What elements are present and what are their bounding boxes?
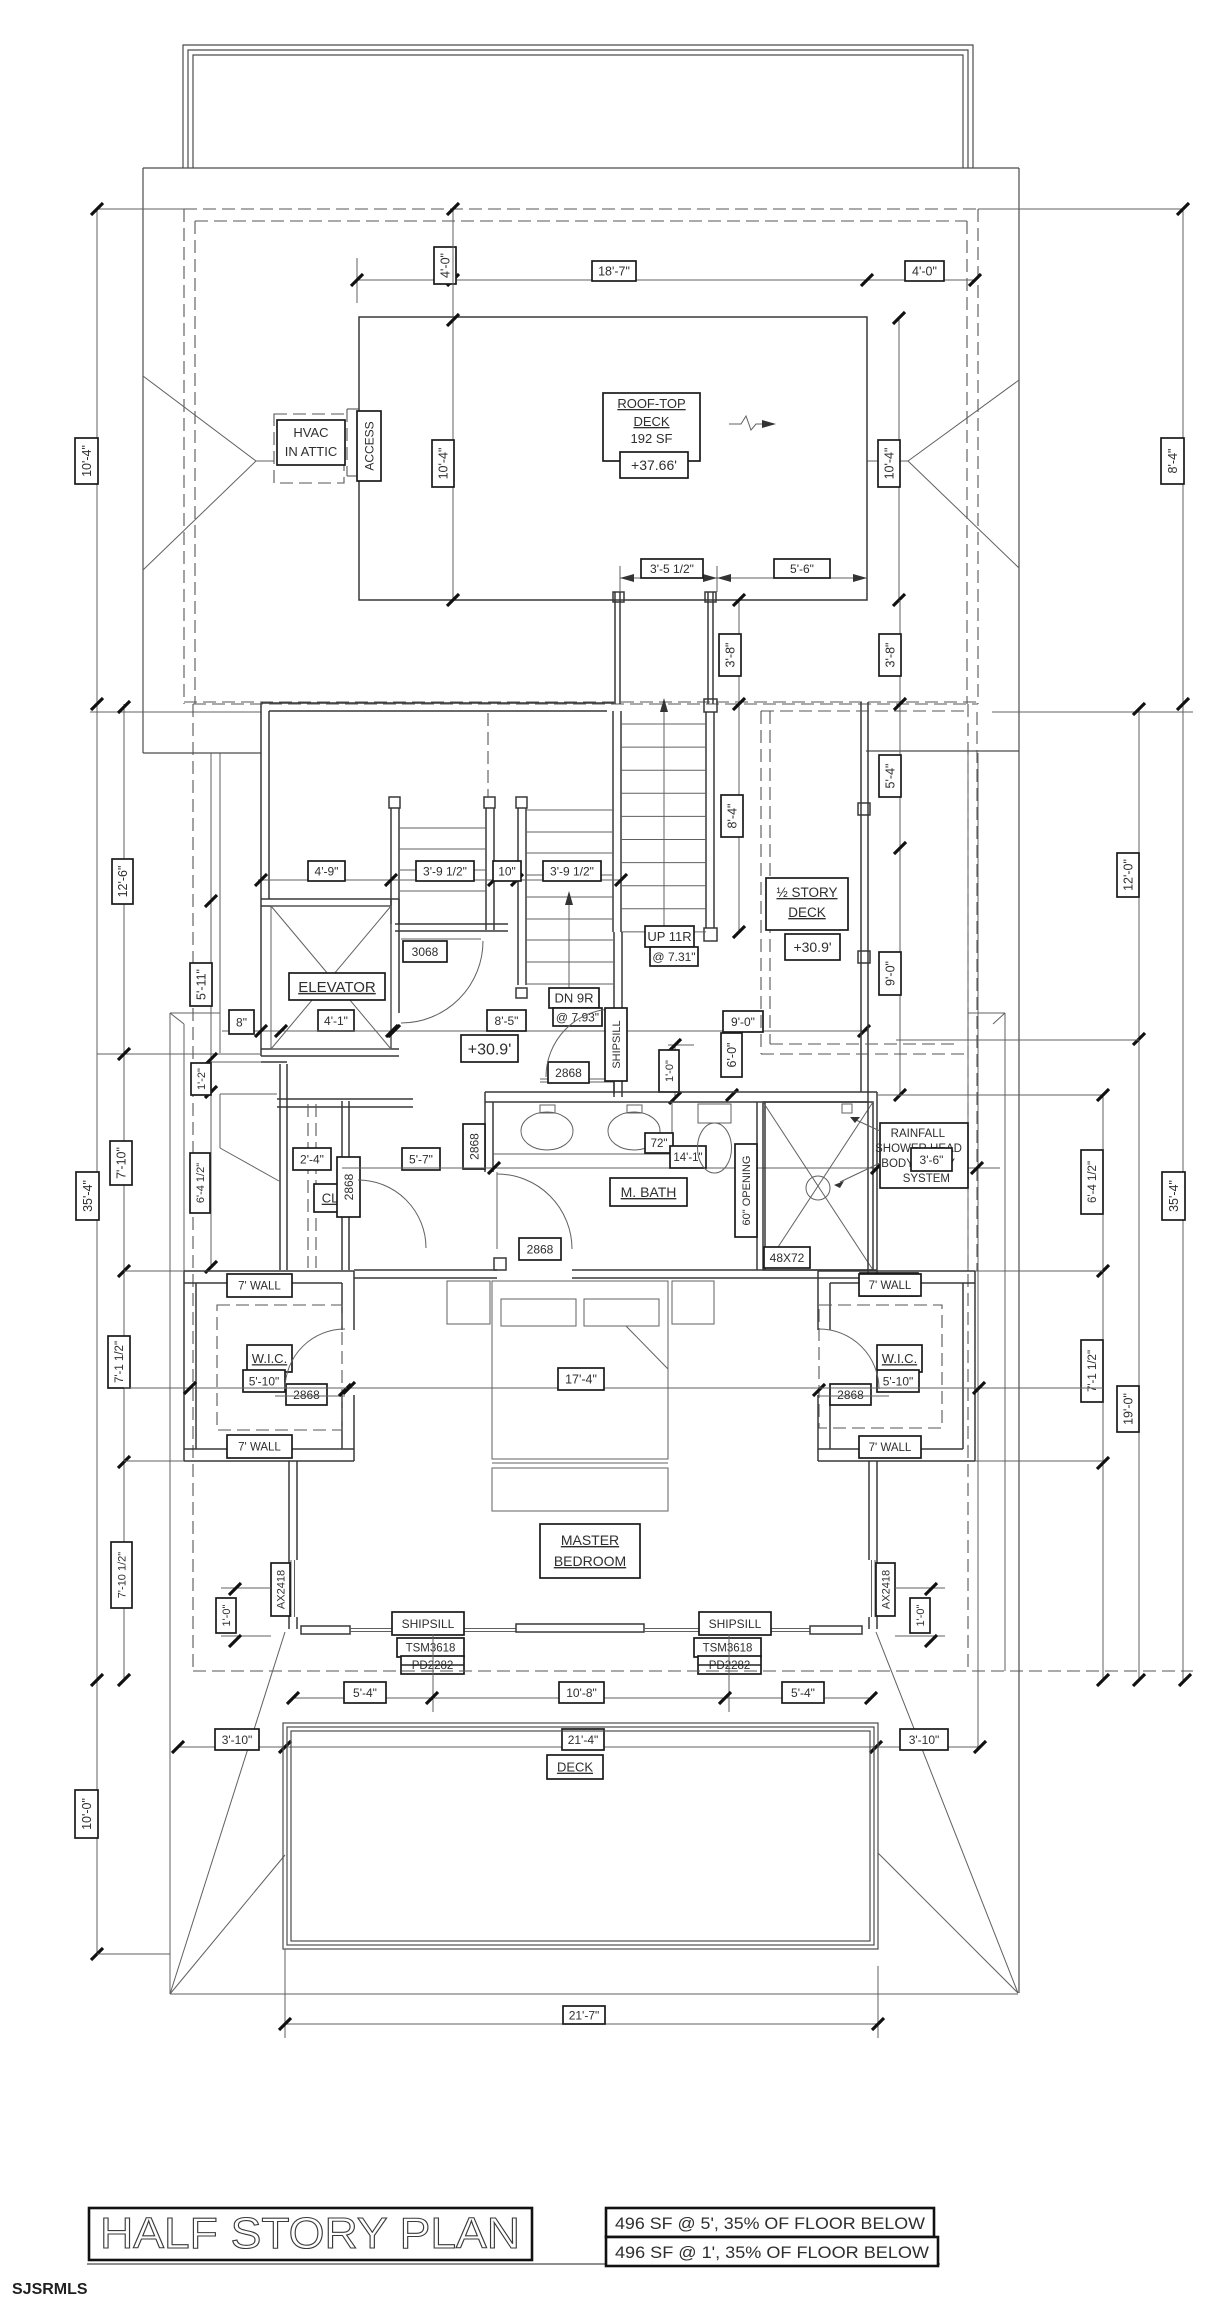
note box 496 SF @ 5 ft' xyxy=(606,2208,934,2237)
svg-text:10'-4": 10'-4" xyxy=(80,445,94,477)
SHIPSILL label right window xyxy=(699,1612,771,1635)
HVAC in attic dashed box xyxy=(274,414,344,483)
building side wall below roof right xyxy=(967,753,969,1271)
DECK label xyxy=(547,1755,603,1779)
wall stub below elevator xyxy=(211,1061,261,1063)
TSM3618 / PD2282 left xyxy=(397,1638,464,1657)
bath south wall xyxy=(354,1269,497,1271)
svg-text:MASTER: MASTER xyxy=(561,1532,619,1548)
elevator dim 4'-1 xyxy=(318,1010,354,1031)
small dim 1'-0 right window xyxy=(895,1587,945,1589)
svg-text:10'-0": 10'-0" xyxy=(80,1798,94,1830)
lower roof dashed overhang bottom xyxy=(193,1670,1193,1672)
ACCESS rotated label xyxy=(357,411,381,481)
shower head square xyxy=(842,1104,852,1113)
extension lines WIC walls to dim chains xyxy=(975,1460,1103,1462)
svg-text:1'-0": 1'-0" xyxy=(664,1060,676,1082)
svg-text:4'-9": 4'-9" xyxy=(315,864,339,878)
svg-text:½ STORY: ½ STORY xyxy=(776,885,837,900)
extension line y=1168 ticks xyxy=(871,1162,883,1174)
main stair up arrow line xyxy=(663,705,665,950)
upper roof outer rectangle xyxy=(143,167,1019,169)
stair room center dashed line xyxy=(487,713,489,798)
vanity dim 72 xyxy=(645,1133,673,1153)
deck dim line y=1747 3'-10 / 21'-4 / 3'-10 xyxy=(178,1746,980,1748)
svg-text:2868: 2868 xyxy=(527,1242,554,1256)
svg-text:5'-6": 5'-6" xyxy=(790,562,814,576)
lower roof left edge xyxy=(170,1012,220,1014)
svg-text:+30.9': +30.9' xyxy=(468,1041,512,1058)
svg-text:7' WALL: 7' WALL xyxy=(238,1442,281,1454)
shower enclosure xyxy=(763,1102,873,1270)
main stair left rail xyxy=(612,711,614,932)
svg-text:35'-4": 35'-4" xyxy=(81,1180,95,1212)
rotated dim 5'-11 xyxy=(190,963,212,1006)
svg-text:SYSTEM: SYSTEM xyxy=(903,1173,950,1185)
left chain bottom 10'-0 xyxy=(91,1948,103,1960)
svg-text:17'-4": 17'-4" xyxy=(565,1373,597,1387)
svg-text:12'-0": 12'-0" xyxy=(1122,859,1136,891)
svg-text:@ 7.31": @ 7.31" xyxy=(652,950,695,964)
svg-text:W.I.C.: W.I.C. xyxy=(882,1351,917,1366)
svg-text:SJSRMLS: SJSRMLS xyxy=(12,2281,88,2298)
right WIC shelving dashed xyxy=(819,1305,942,1428)
MASTER BEDROOM label xyxy=(540,1524,640,1578)
closet dim 2'-4 xyxy=(293,1148,331,1170)
left outer dim chain x=97 xyxy=(96,209,98,1954)
right dim chain x=1139 12'-0 / 19'-0 xyxy=(1138,709,1140,1680)
svg-text:10'-4": 10'-4" xyxy=(437,448,451,480)
right WIC door 2868 xyxy=(830,1384,871,1405)
lower roof hip diagonals right xyxy=(876,1632,1018,1993)
svg-text:+30.9': +30.9' xyxy=(793,939,831,955)
shower size 48X72 label xyxy=(764,1247,810,1268)
TSM3618 / PD2282 right xyxy=(694,1638,761,1657)
extension line y=1040 to x=1139 xyxy=(896,1039,1139,1041)
bedroom cross dim line y=1388 xyxy=(124,1387,1103,1389)
toilet xyxy=(698,1104,731,1123)
svg-text:5'-10": 5'-10" xyxy=(883,1374,914,1388)
svg-text:5'-4": 5'-4" xyxy=(353,1686,377,1700)
half story deck dashed outline xyxy=(761,710,968,712)
right window AX2418 xyxy=(871,1560,873,1617)
deck bottom dim 21'-7 xyxy=(284,1949,286,2038)
closet rod dashed lines xyxy=(307,1104,309,1268)
closet right wall xyxy=(341,1101,343,1270)
svg-text:19'-0": 19'-0" xyxy=(1122,1393,1136,1425)
extension line y=1271 to x=1103 xyxy=(877,1270,1103,1272)
svg-text:AX2418: AX2418 xyxy=(881,1570,893,1609)
note box 496 SF @ 1' xyxy=(606,2237,938,2266)
window center extension lines xyxy=(432,1634,434,1712)
bed nightstand right xyxy=(672,1281,714,1324)
vertical dim x=900 3'-8 / 5'-4 / 9'-0 xyxy=(899,600,901,1095)
svg-text:TSM3618: TSM3618 xyxy=(406,1643,456,1655)
svg-text:SHIPSILL: SHIPSILL xyxy=(402,1617,455,1631)
svg-text:21'-4": 21'-4" xyxy=(568,1733,599,1747)
bath dim 14'-1 xyxy=(670,1146,706,1168)
window dim line y=1698 5'-4 / 10'-8 / 5'-4 xyxy=(293,1697,871,1699)
small dim 1'-0 at x=675 xyxy=(668,1044,694,1046)
RAINFALL SHOWER HEAD BODY SPRAY SYSTEM note xyxy=(880,1123,968,1188)
svg-text:7'-1 1/2": 7'-1 1/2" xyxy=(1087,1350,1099,1392)
lower roof bottom edge xyxy=(170,1993,1018,1995)
svg-text:5'-7": 5'-7" xyxy=(409,1152,433,1166)
svg-text:5'-4": 5'-4" xyxy=(791,1686,815,1700)
svg-text:ROOF-TOP: ROOF-TOP xyxy=(617,396,685,411)
svg-text:8'-5": 8'-5" xyxy=(495,1014,519,1028)
svg-text:48X72: 48X72 xyxy=(770,1251,805,1265)
title underline xyxy=(87,2263,940,2265)
deck elevation +37.66 label xyxy=(620,452,688,478)
east wall of stair room lower xyxy=(613,932,615,1097)
bath east wall xyxy=(867,1092,869,1278)
HVAC in attic label xyxy=(277,420,345,465)
svg-text:7'-10 1/2": 7'-10 1/2" xyxy=(117,1552,129,1598)
svg-text:7'-1 1/2": 7'-1 1/2" xyxy=(114,1341,126,1383)
stair room door 3068 xyxy=(401,938,481,940)
roof overhang dashed rect outer xyxy=(184,208,978,210)
left window AX2418 xyxy=(290,1560,292,1617)
svg-text:10'-8": 10'-8" xyxy=(566,1686,597,1700)
deck triple border xyxy=(283,1723,878,1949)
svg-text:4'-0": 4'-0" xyxy=(912,265,937,279)
break-line squiggle with arrow xyxy=(729,416,762,430)
main stair right rail xyxy=(705,712,707,928)
left WIC label xyxy=(247,1345,292,1372)
svg-text:AX2418: AX2418 xyxy=(276,1570,288,1609)
svg-text:ACCESS: ACCESS xyxy=(362,421,376,470)
bedroom east wall xyxy=(876,1461,878,1629)
right WIC label xyxy=(877,1345,922,1372)
svg-text:3'-8": 3'-8" xyxy=(884,643,898,668)
svg-text:496 SF @ 5', 35% OF FLOOR BELO: 496 SF @ 5', 35% OF FLOOR BELOW xyxy=(615,2215,925,2233)
svg-text:5'-4": 5'-4" xyxy=(884,764,898,789)
title box HALF STORY PLAN xyxy=(89,2208,532,2260)
SHIPSILL label left window xyxy=(392,1612,464,1635)
rotated dim 6'-0 xyxy=(721,1033,742,1077)
svg-text:DECK: DECK xyxy=(788,905,826,920)
bed nightstand left xyxy=(447,1281,490,1324)
bedroom south window wall xyxy=(301,1626,350,1634)
svg-text:TSM3618: TSM3618 xyxy=(703,1643,753,1655)
svg-text:7' WALL: 7' WALL xyxy=(869,1442,912,1454)
svg-text:8": 8" xyxy=(236,1015,247,1029)
bath north wall xyxy=(485,1091,877,1093)
svg-text:10": 10" xyxy=(498,864,516,878)
building side wall below roof left xyxy=(210,753,212,1267)
3'-6 label over note xyxy=(911,1148,952,1171)
vanity counter xyxy=(493,1153,672,1155)
svg-text:3'-9 1/2": 3'-9 1/2" xyxy=(423,864,467,878)
1/2 STORY DECK label xyxy=(766,878,848,930)
svg-text:18'-7": 18'-7" xyxy=(598,265,630,279)
svg-text:HVAC: HVAC xyxy=(293,425,328,440)
svg-text:192 SF: 192 SF xyxy=(631,431,673,446)
dashed line y=704 across plan xyxy=(193,703,978,705)
roof-top deck rectangle xyxy=(359,317,867,600)
shower drain xyxy=(806,1176,830,1200)
svg-text:W.I.C.: W.I.C. xyxy=(252,1351,287,1366)
svg-text:4'-0": 4'-0" xyxy=(439,253,453,278)
bath west door leaf and arc 2868 xyxy=(496,1172,498,1249)
winder bottom wall xyxy=(395,923,508,925)
svg-text:8'-4": 8'-4" xyxy=(1166,449,1180,474)
extension line y=1095 to right chains xyxy=(877,1094,1103,1096)
svg-text:2868: 2868 xyxy=(342,1173,356,1200)
ROOF-TOP DECK label xyxy=(603,393,700,461)
svg-text:1'-0": 1'-0" xyxy=(915,1604,927,1626)
svg-text:2868: 2868 xyxy=(467,1133,481,1160)
svg-text:HALF STORY PLAN: HALF STORY PLAN xyxy=(100,2209,520,2258)
bedroom west wall xyxy=(288,1461,290,1629)
svg-text:SHIPSILL: SHIPSILL xyxy=(709,1617,762,1631)
svg-text:7'-10": 7'-10" xyxy=(115,1147,129,1179)
roof deck stair side walls (upper) xyxy=(614,592,616,704)
vertical dim x=739 3'-8 and 8'-4 xyxy=(738,600,740,932)
svg-text:3'-5 1/2": 3'-5 1/2" xyxy=(650,562,694,576)
svg-text:5'-10": 5'-10" xyxy=(249,1374,280,1388)
long dashed overhang verticals xyxy=(192,704,194,1670)
small dim 1'-0 left window xyxy=(221,1587,271,1589)
DN arrow xyxy=(568,898,570,988)
right WIC 7' WALL labels xyxy=(859,1274,921,1296)
right outer dim chain x=1183 xyxy=(1182,209,1184,1680)
elevator shaft X xyxy=(271,906,391,1049)
svg-text:DECK: DECK xyxy=(633,414,669,429)
closet left wall xyxy=(279,1064,281,1270)
lower roof right edge xyxy=(968,1012,1005,1014)
stair room north wall xyxy=(261,702,614,704)
right WIC walls xyxy=(818,1270,975,1272)
bed fold corner xyxy=(626,1326,668,1369)
svg-text:3'-6": 3'-6" xyxy=(920,1153,944,1167)
svg-text:12'-6": 12'-6" xyxy=(116,866,130,898)
elevator shaft walls xyxy=(261,898,399,900)
attic access dashed hatch xyxy=(346,409,348,476)
svg-text:3068: 3068 xyxy=(412,945,439,959)
svg-text:+37.66': +37.66' xyxy=(631,457,677,473)
hall elevation +30.9 label xyxy=(461,1035,518,1062)
extension line x=899 with 10'-4 label xyxy=(898,318,900,600)
svg-text:8'-4": 8'-4" xyxy=(726,804,740,829)
winder stair right rail and post xyxy=(516,797,527,808)
svg-text:60" OPENING: 60" OPENING xyxy=(741,1156,753,1226)
svg-text:4'-1": 4'-1" xyxy=(324,1014,348,1028)
svg-text:IN ATTIC: IN ATTIC xyxy=(285,444,337,459)
dim 6'-4 1/2 left xyxy=(190,1153,210,1213)
svg-text:3'-10": 3'-10" xyxy=(222,1733,253,1747)
bath south door 2868 label xyxy=(519,1238,561,1260)
svg-text:10'-4": 10'-4" xyxy=(883,448,897,480)
svg-text:3'-8": 3'-8" xyxy=(724,643,738,668)
svg-text:CL: CL xyxy=(322,1191,339,1206)
svg-text:6'-4 1/2": 6'-4 1/2" xyxy=(1087,1161,1099,1203)
small dim 1'-2 left xyxy=(205,1053,217,1065)
svg-text:UP 11R: UP 11R xyxy=(647,929,691,944)
svg-text:DN 9R: DN 9R xyxy=(554,991,593,1006)
svg-text:6'-4 1/2": 6'-4 1/2" xyxy=(195,1163,207,1203)
winder stair treads left flight xyxy=(399,827,486,829)
svg-text:7' WALL: 7' WALL xyxy=(869,1280,912,1292)
eave line branch xyxy=(220,1093,277,1095)
bath entry dim 5'-7 xyxy=(402,1148,440,1170)
left WIC dim 5'-10 xyxy=(243,1370,285,1392)
svg-text:DECK: DECK xyxy=(557,1760,593,1775)
vanity sink left xyxy=(521,1112,573,1150)
bath west wall upper xyxy=(484,1092,486,1172)
bed bench xyxy=(492,1468,668,1511)
leader arrows from note to shower xyxy=(856,1120,880,1131)
stair room west wall xyxy=(260,703,262,1056)
svg-text:M. BATH: M. BATH xyxy=(621,1184,677,1200)
bed pillows xyxy=(501,1299,576,1326)
main stair treads xyxy=(621,723,706,725)
svg-text:2868: 2868 xyxy=(555,1066,582,1080)
lower roof hip diagonals left xyxy=(170,1632,285,1994)
svg-text:1'-0": 1'-0" xyxy=(221,1604,233,1626)
left WIC walls xyxy=(184,1270,354,1272)
svg-text:3'-10": 3'-10" xyxy=(909,1733,940,1747)
CL label xyxy=(314,1184,346,1212)
left WIC door 2868 xyxy=(286,1384,327,1405)
svg-text:9'-0": 9'-0" xyxy=(731,1015,755,1029)
svg-text:3'-9 1/2": 3'-9 1/2" xyxy=(550,864,594,878)
svg-text:2868: 2868 xyxy=(293,1388,320,1402)
svg-text:BEDROOM: BEDROOM xyxy=(554,1553,626,1569)
closet door arc xyxy=(358,1180,426,1248)
svg-text:7' WALL: 7' WALL xyxy=(238,1281,281,1293)
svg-text:1'-2": 1'-2" xyxy=(196,1068,208,1090)
winder dim line y=880 4'-9 / 3'-9 1/2 / 10 / 3'-9 1/2 xyxy=(258,879,622,881)
svg-text:496 SF @ 1', 35% OF FLOOR BELO: 496 SF @ 1', 35% OF FLOOR BELOW xyxy=(615,2244,929,2262)
winder stair left rail and post xyxy=(389,797,400,808)
extension line x=453 with 10'-4 label xyxy=(452,209,454,600)
hall dim line y=1031 8'-5 / 9'-0 xyxy=(399,1030,868,1032)
svg-text:SHIPSILL: SHIPSILL xyxy=(611,1020,623,1068)
right dim chain x=1103 6'-4 1/2 / 7'-1 1/2 xyxy=(1102,1095,1104,1680)
hall door 2868 with shipsill xyxy=(540,1078,614,1080)
winder stair treads right flight xyxy=(526,809,613,811)
svg-text:9'-0": 9'-0" xyxy=(884,961,898,986)
7' WALL label right of bath xyxy=(860,1273,918,1296)
lower roof left valley diagonal xyxy=(220,1148,279,1181)
vanity sink right xyxy=(608,1112,660,1150)
svg-text:RAINFALL: RAINFALL xyxy=(891,1128,946,1140)
svg-text:ELEVATOR: ELEVATOR xyxy=(298,979,376,996)
svg-text:2868: 2868 xyxy=(837,1388,864,1402)
winder stair mid rail and post xyxy=(484,797,495,808)
UP 11R label xyxy=(645,926,694,947)
roof overhang dashed rect inner xyxy=(195,220,967,222)
half story deck elevation +30.9 xyxy=(785,934,840,960)
left dim chain x=124 7'-10 / 7'-1 1/2 xyxy=(123,704,125,1680)
60 inch opening rotated label xyxy=(756,1102,758,1270)
left WIC shelving dashed xyxy=(217,1305,342,1430)
M. BATH label xyxy=(610,1178,687,1206)
left WIC 7' WALL labels xyxy=(227,1274,292,1297)
svg-text:2'-4": 2'-4" xyxy=(300,1152,324,1166)
svg-text:21'-7": 21'-7" xyxy=(569,2008,600,2022)
8 inch wall dim label xyxy=(229,1010,254,1034)
ELEVATOR label xyxy=(289,973,385,1000)
svg-text:35'-4": 35'-4" xyxy=(1167,1180,1181,1212)
roof ridge triple outline xyxy=(183,45,973,168)
right WIC dim 5'-10 xyxy=(877,1370,919,1392)
stair top dim 3'-5 1/2 / 5'-6 xyxy=(620,577,867,579)
closet door 2868 rotated label xyxy=(337,1157,360,1217)
left roof hip triangle xyxy=(143,376,256,461)
svg-text:72": 72" xyxy=(651,1138,668,1150)
hall south wall left of bath xyxy=(277,1098,413,1100)
svg-text:6'-0": 6'-0" xyxy=(725,1043,739,1068)
top dimension line 4'-0 / 18'-7 / 4'-0 xyxy=(357,279,975,281)
DN 9R label xyxy=(549,988,599,1008)
right roof hip triangle xyxy=(908,380,1019,461)
svg-text:5'-11": 5'-11" xyxy=(195,969,209,1000)
half story deck rail xyxy=(860,702,862,1092)
bed outline xyxy=(492,1281,668,1459)
